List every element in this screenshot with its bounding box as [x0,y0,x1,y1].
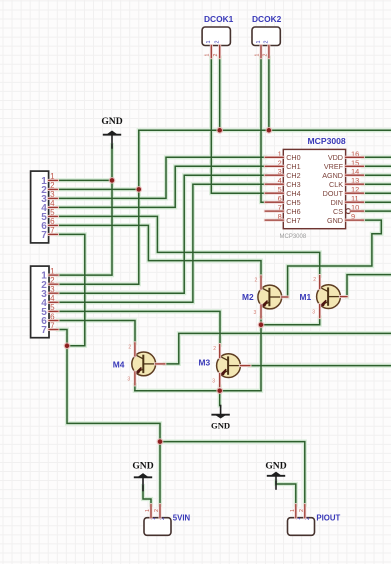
pin U1.8 CH7 stub [265,219,283,222]
svg-text:2: 2 [262,54,268,57]
pin M1 emitter stub [318,305,321,318]
svg-text:2: 2 [213,54,219,57]
wire J2 pin3 to MCP CH2 [58,175,265,293]
svg-text:MCP3008: MCP3008 [280,234,307,240]
wire DCOK1 pin1 to MCP CH4 [211,58,265,194]
pin J1.6 stub [49,224,58,227]
junction GND at M3 emitter [216,387,223,394]
svg-text:CH5: CH5 [286,198,300,207]
junction GND at M2 emitter [258,321,265,328]
junction 5V net at 5VIN drop [157,438,164,445]
ground GND symbol near PIOUT [265,461,286,490]
wire MCP VDD to right edge [363,156,391,158]
wire DCOK net top row y130 [139,129,391,131]
pin J2.5 stub [49,310,58,313]
svg-text:DIN: DIN [331,198,343,207]
wire M2 emitter column [260,318,262,391]
connector DCOK2 (2-pin) [252,27,280,46]
label 5VIN [173,514,191,523]
pin U1.16 VDD stub [346,156,364,159]
pin M4 base stub [156,362,165,365]
svg-text:2: 2 [255,278,258,284]
pin M2 collector stub [260,276,263,289]
wire J1 pin7 down [58,234,85,345]
wire M3 GND stem [219,391,221,406]
svg-text:7: 7 [41,230,47,241]
pin J1.2 stub [49,188,58,191]
svg-text:3: 3 [127,377,130,383]
svg-text:2: 2 [215,41,221,44]
svg-text:1: 1 [145,509,151,512]
wire DCOK1 pin2 drop [219,58,221,131]
pin J2.1 stub [49,274,58,277]
pin DCOK2.1 stub [260,46,263,58]
svg-text:1: 1 [205,54,211,57]
junction GND at J1 pin1 [109,177,116,184]
wire J1 pin6 to M2 collector [58,225,262,276]
wire J1 pin4 to MCP CH1 [58,166,266,207]
pin U1.7 CH6 stub [265,210,283,213]
svg-text:CH1: CH1 [286,162,300,171]
svg-text:M4: M4 [113,359,125,369]
pin M4 collector stub [133,343,136,356]
svg-text:GND: GND [327,216,343,225]
svg-text:2: 2 [264,41,270,44]
wire MCP DOUT to right edge [363,192,391,194]
svg-text:1: 1 [254,54,260,57]
wire J2 pin5 to M3 collector [58,311,220,344]
label M2 [242,292,254,302]
wire J2 pin7 down to junction [58,330,67,346]
pin U1.12 DOUT stub [346,192,364,195]
wire GND column x112 down to J2 pin1 [58,145,112,275]
pin M1 numbers [312,277,316,315]
svg-text:GND: GND [265,461,286,472]
pin U1.10 CS stub [351,210,364,213]
wire M4 emitter drop [134,385,136,391]
pin 5VIN numbers [145,509,160,512]
svg-text:5VIN: 5VIN [173,514,191,523]
pin DCOK2.2 stub [267,46,270,58]
pin PIOUT numbers [290,509,305,512]
pin U1.2 CH1 stub [265,165,283,168]
pin J1.3 stub [49,197,58,200]
wire M3 base out [250,365,391,367]
pin J2.6 stub [49,319,58,322]
wire MCP AGND to right edge [363,174,391,176]
junction DCOK1 pin2 on top row [216,127,223,134]
svg-text:3: 3 [254,310,257,316]
pin DCOK1 numbers [205,54,219,57]
wire M1 emitter to GND junction [261,318,320,325]
wire J2 pin4 to MCP CH3 [58,184,265,302]
connector J2 (7-pin header) [31,266,55,338]
pin M2 emitter stub [260,305,263,318]
svg-text:VDD: VDD [328,153,343,162]
wire MCP pin9 route to M2 base [288,220,382,297]
pin M2 numbers [254,278,258,316]
svg-text:DCOK1: DCOK1 [204,14,234,24]
svg-text:CH4: CH4 [286,189,300,198]
pin M4 numbers [127,344,131,382]
svg-text:CLK: CLK [329,180,343,189]
svg-text:M2: M2 [242,292,254,302]
pin M1 collector stub [318,276,321,289]
connector DCOK1 (2-pin) [202,27,230,46]
wire M4 base out [165,333,391,364]
pin PIOUT.1 stub [294,505,297,518]
wire DCOK net column x139 [58,130,139,284]
svg-text:2: 2 [213,346,216,352]
pin PIOUT.2 stub [303,505,306,518]
svg-text:CH0: CH0 [286,153,300,162]
pin U1.13 CLK stub [346,183,364,186]
pin DCOK2 numbers [254,54,268,57]
pin 5VIN.1 stub [150,505,153,518]
wire M3 emitter drop [219,387,221,391]
wire MCP CLK to right edge [363,183,391,185]
wire 5V net to bottom [67,346,160,505]
pin J2.7 stub [49,328,58,331]
svg-text:M3: M3 [199,358,211,368]
label M3 [199,358,211,368]
pin U1.14 AGND stub [346,174,364,177]
pin M3 base stub [240,364,250,367]
wire DCOK2 pin1 to MCP CH5 [261,58,265,203]
pin J1.5 stub [49,215,58,218]
transistor M2 (NPN, mirrored) [258,284,282,310]
junction 5V net at J2 pin7 [64,342,71,349]
label U1 package MCP3008 [280,234,307,240]
svg-text:3: 3 [312,309,315,315]
pin U1.5 CH4 stub [265,192,283,195]
junction DCOK2 pin2 on top row [266,127,273,134]
wire DCOK2 pin2 drop [268,58,270,131]
svg-text:MCP3008: MCP3008 [308,136,346,146]
pin DCOK1.2 stub [218,46,221,58]
svg-text:CH3: CH3 [286,180,300,189]
pin M3 emitter stub [218,374,221,387]
pin M3 numbers [212,346,216,384]
pin J1.1 stub [49,179,58,182]
pin DCOK1.1 stub [210,46,213,58]
pin M3 collector stub [218,345,221,358]
pin J2.3 stub [49,292,58,295]
label M1 [300,292,312,302]
pin M2 base stub [282,296,288,299]
op-amp U1 MCP3008 ADC [278,149,360,228]
pin 5VIN.2 stub [159,505,162,518]
ground GND symbol near J1 [101,116,122,149]
wire J1 pin2 row [58,188,139,190]
label DCOK1 [204,14,234,24]
svg-text:2: 2 [313,277,316,283]
wire J1 pin1 to GND junction [58,179,113,181]
ground GND symbol near 5VIN [132,460,153,491]
svg-text:M1: M1 [300,292,312,302]
pin J1.7 stub [49,233,58,236]
pin U1.1 CH0 stub [265,156,283,159]
svg-text:3: 3 [212,378,215,384]
wire J1 pin3 to MCP CH0 [58,157,266,198]
pin U1.4 CH3 stub [265,183,283,186]
wire emitter GND row [135,390,261,392]
wire 5VIN GND elbow [143,486,151,505]
svg-text:VREF: VREF [324,162,344,171]
transistor M1 (NPN, mirrored) [317,284,341,310]
junction DCOK net at J1 pin2 [135,186,142,193]
ground GND symbol below M3 [211,405,230,431]
pin J2.4 stub [49,301,58,304]
connector J1 (7-pin header) [31,171,55,243]
pin J1.4 stub [49,206,58,209]
pin M1 base stub [340,295,347,298]
wire M1 base out [347,275,391,297]
label DCOK2 [252,14,282,24]
connector 5VIN (2-pin) [144,517,171,535]
svg-text:2: 2 [128,344,131,350]
label M4 [113,359,125,369]
transistor M4 (NPN, mirrored) [132,351,156,377]
svg-text:CH2: CH2 [286,171,300,180]
svg-text:GND: GND [132,460,153,471]
svg-text:2: 2 [299,509,305,512]
svg-text:AGND: AGND [322,171,343,180]
svg-text:PIOUT: PIOUT [316,514,340,523]
pin U1.9 GND stub [346,219,364,222]
svg-text:DOUT: DOUT [323,189,344,198]
svg-text:1: 1 [206,41,212,44]
svg-text:1: 1 [256,41,262,44]
svg-text:1: 1 [290,509,296,512]
svg-text:7: 7 [41,325,47,336]
connector PIOUT (2-pin) [288,517,315,535]
wire MCP DIN to right edge [363,201,391,203]
wire MCP VREF to right edge [363,165,391,167]
wire 5V net to PIOUT pin2 [160,442,305,505]
svg-text:GND: GND [211,421,230,431]
svg-text:CH6: CH6 [286,207,300,216]
wire J2 pin6 to M4 collector [58,321,135,344]
label U1 value MCP3008 [308,136,346,146]
svg-text:DCOK2: DCOK2 [252,14,282,24]
pin U1.3 CH2 stub [265,174,283,177]
pin J2.2 stub [49,283,58,286]
svg-text:CS: CS [333,207,343,216]
pin U1.6 CH5 stub [265,201,283,204]
transistor M3 (NPN, mirrored) [217,353,241,379]
label PIOUT [316,514,340,523]
wire PIOUT GND elbow [276,482,296,505]
pin M4 emitter stub [133,372,136,385]
svg-text:CH7: CH7 [286,216,300,225]
wire J1 pin5 to M1 collector [58,216,320,275]
wire MCP CS to right edge [363,210,391,212]
svg-text:2: 2 [154,509,160,512]
pin U1.11 DIN stub [346,201,364,204]
svg-text:GND: GND [101,116,122,127]
pin U1.15 VREF stub [346,165,364,168]
